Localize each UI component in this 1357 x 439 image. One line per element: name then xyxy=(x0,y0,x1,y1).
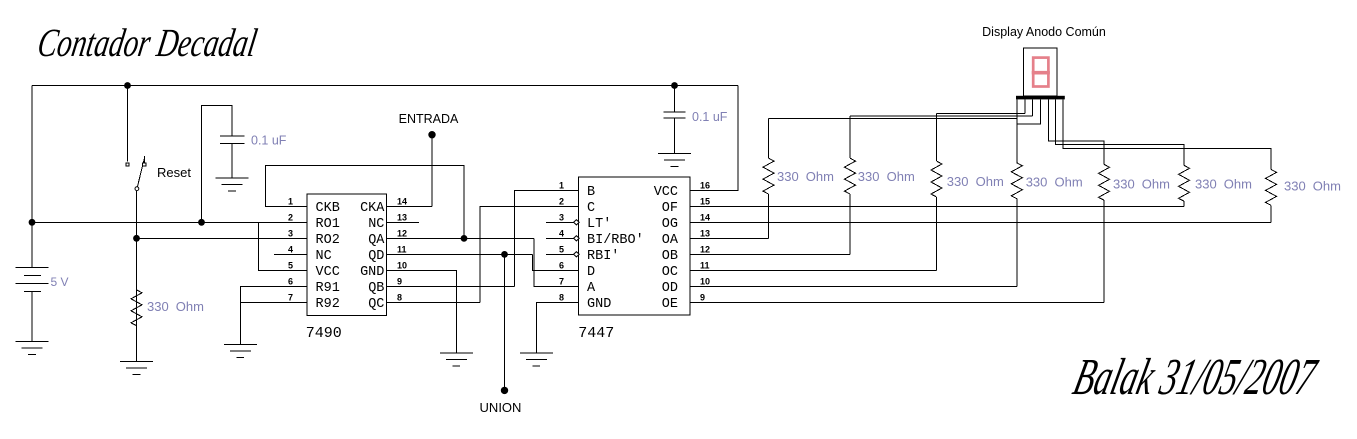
svg-text:12: 12 xyxy=(397,229,407,239)
svg-text:OB: OB xyxy=(662,249,678,264)
svg-text:330 Ohm: 330 Ohm xyxy=(1026,175,1083,190)
svg-text:2: 2 xyxy=(559,197,564,207)
svg-text:R92: R92 xyxy=(316,297,340,312)
svg-text:Balak 31/05/2007: Balak 31/05/2007 xyxy=(1068,347,1323,405)
svg-text:330 Ohm: 330 Ohm xyxy=(777,169,834,184)
svg-text:OD: OD xyxy=(662,281,678,296)
svg-text:QA: QA xyxy=(368,233,385,248)
svg-text:BI/RBO': BI/RBO' xyxy=(587,233,644,248)
svg-text:330 Ohm: 330 Ohm xyxy=(1284,179,1341,194)
svg-text:CKB: CKB xyxy=(316,201,340,216)
svg-text:11: 11 xyxy=(700,261,710,271)
svg-text:10: 10 xyxy=(700,277,710,287)
svg-text:16: 16 xyxy=(700,181,710,191)
svg-text:5: 5 xyxy=(559,245,564,255)
svg-text:3: 3 xyxy=(288,229,293,239)
svg-text:0.1 uF: 0.1 uF xyxy=(692,110,728,124)
svg-text:13: 13 xyxy=(397,213,407,223)
svg-text:VCC: VCC xyxy=(316,265,340,280)
svg-text:12: 12 xyxy=(700,245,710,255)
svg-text:CKA: CKA xyxy=(360,201,385,216)
svg-text:5: 5 xyxy=(288,261,293,271)
svg-text:Display Anodo Común: Display Anodo Común xyxy=(982,25,1106,39)
svg-text:6: 6 xyxy=(559,261,564,271)
svg-text:330 Ohm: 330 Ohm xyxy=(947,174,1004,189)
svg-text:9: 9 xyxy=(397,277,402,287)
svg-text:GND: GND xyxy=(360,265,384,280)
svg-text:6: 6 xyxy=(288,277,293,287)
svg-text:OF: OF xyxy=(662,201,678,216)
svg-text:OG: OG xyxy=(662,217,678,232)
svg-text:QB: QB xyxy=(368,281,384,296)
svg-text:OC: OC xyxy=(662,265,678,280)
svg-text:7490: 7490 xyxy=(306,325,342,342)
svg-text:R91: R91 xyxy=(316,281,340,296)
svg-text:Reset: Reset xyxy=(157,165,191,180)
svg-text:2: 2 xyxy=(288,213,293,223)
svg-text:A: A xyxy=(587,281,596,296)
svg-text:B: B xyxy=(587,185,595,200)
svg-text:1: 1 xyxy=(559,181,564,191)
svg-text:11: 11 xyxy=(397,245,407,255)
svg-text:LT': LT' xyxy=(587,217,611,232)
svg-text:D: D xyxy=(587,265,595,280)
svg-text:RO1: RO1 xyxy=(316,217,340,232)
svg-text:NC: NC xyxy=(368,217,384,232)
svg-text:330 Ohm: 330 Ohm xyxy=(1113,177,1170,192)
svg-text:RO2: RO2 xyxy=(316,233,340,248)
svg-text:NC: NC xyxy=(316,249,332,264)
svg-text:OE: OE xyxy=(662,297,678,312)
svg-text:RBI': RBI' xyxy=(587,249,619,264)
svg-text:7447: 7447 xyxy=(578,325,614,342)
svg-text:8: 8 xyxy=(397,293,402,303)
svg-text:3: 3 xyxy=(559,213,564,223)
svg-text:15: 15 xyxy=(700,197,710,207)
svg-text:C: C xyxy=(587,201,595,216)
svg-text:5 V: 5 V xyxy=(51,275,69,289)
svg-text:14: 14 xyxy=(700,213,710,223)
svg-text:7: 7 xyxy=(559,277,564,287)
svg-text:330 Ohm: 330 Ohm xyxy=(147,299,204,314)
svg-text:8: 8 xyxy=(559,293,564,303)
svg-text:ENTRADA: ENTRADA xyxy=(399,112,459,126)
svg-text:1: 1 xyxy=(288,197,293,207)
svg-text:QC: QC xyxy=(368,297,384,312)
svg-text:UNION: UNION xyxy=(480,400,522,415)
svg-text:Contador Decadal: Contador Decadal xyxy=(34,20,260,65)
svg-text:4: 4 xyxy=(288,245,293,255)
svg-text:7: 7 xyxy=(288,293,293,303)
svg-text:330 Ohm: 330 Ohm xyxy=(858,169,915,184)
svg-text:9: 9 xyxy=(700,293,705,303)
svg-text:330 Ohm: 330 Ohm xyxy=(1195,177,1252,192)
svg-text:14: 14 xyxy=(397,197,407,207)
svg-text:VCC: VCC xyxy=(654,185,678,200)
svg-text:13: 13 xyxy=(700,229,710,239)
svg-text:GND: GND xyxy=(587,297,611,312)
svg-text:10: 10 xyxy=(397,261,407,271)
svg-text:4: 4 xyxy=(559,229,564,239)
svg-text:0.1 uF: 0.1 uF xyxy=(251,134,287,148)
svg-text:OA: OA xyxy=(662,233,679,248)
svg-text:QD: QD xyxy=(368,249,384,264)
